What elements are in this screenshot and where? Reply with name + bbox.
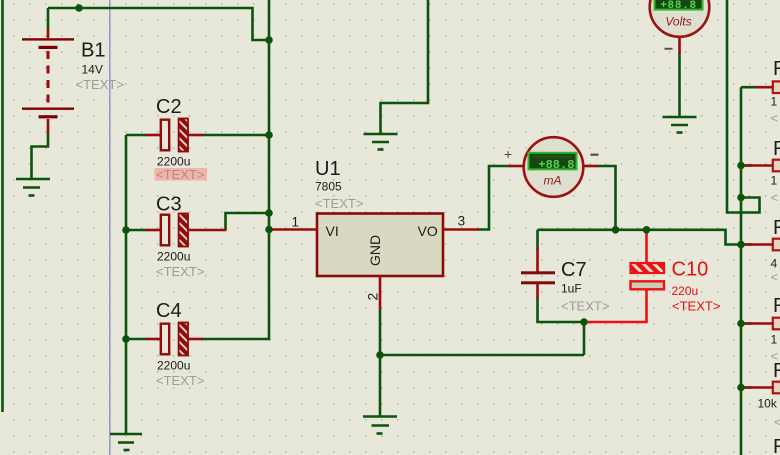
pin C2 left: [146, 134, 161, 137]
wire output rail VO node: [538, 230, 742, 245]
svg-text:GND: GND: [367, 235, 383, 266]
resistor R5: [773, 382, 780, 394]
wire C3 right step to bus: [226, 213, 270, 230]
svg-text:<TEXT>: <TEXT>: [672, 299, 720, 314]
svg-text:B1: B1: [81, 40, 105, 62]
junction right bus R3: [737, 241, 745, 249]
wire top middle ground branch: [381, 0, 429, 134]
wire U1 pin2 to ground rail: [379, 308, 382, 417]
wire R5 stub: [741, 386, 752, 389]
junction battery-bus: [265, 36, 273, 44]
pin C7 bottom: [536, 284, 539, 298]
pin U1-3: [443, 228, 479, 231]
pin R5: [745, 386, 773, 389]
svg-text:4: 4: [771, 257, 778, 271]
wire right feed vertical: [727, 0, 760, 213]
pin U1-2: [379, 276, 382, 309]
pin C3 right: [189, 229, 227, 232]
label voltmeter minus: [665, 48, 673, 50]
svg-text:1: 1: [771, 174, 778, 188]
wire R2 stub: [741, 164, 752, 167]
capacitor C10 (selected): [583, 228, 664, 322]
wire C7 bottom to junction: [538, 297, 585, 322]
pin R1: [756, 86, 773, 89]
svg-text:1: 1: [771, 95, 778, 109]
svg-text:mA: mA: [544, 174, 562, 188]
pin C7 top: [536, 248, 539, 272]
junction output ammeter: [612, 226, 620, 234]
svg-text:2200u: 2200u: [157, 359, 190, 373]
svg-text:R: R: [773, 360, 780, 382]
wire top rail from battery to main bus: [48, 8, 269, 40]
svg-text:10k: 10k: [758, 397, 778, 411]
junction output C10: [643, 226, 651, 234]
svg-text:C10: C10: [672, 259, 709, 281]
wire left edge vertical: [1, 0, 4, 412]
junction right bus R5: [737, 384, 745, 392]
wire C2 right to bus: [202, 134, 269, 137]
pin ammeter minus: [583, 165, 599, 168]
pin R2: [745, 164, 773, 167]
svg-text:C4: C4: [156, 300, 182, 322]
capacitor C2: [161, 119, 188, 152]
pin C2 right: [189, 134, 204, 137]
wire R4 stub: [741, 322, 752, 325]
pin R3: [745, 243, 773, 246]
pin battery bottom: [47, 119, 50, 134]
junction right bus feed: [737, 194, 745, 202]
voltmeter VM1: [650, 0, 710, 37]
pin C4 right: [189, 338, 204, 341]
svg-text:VO: VO: [418, 223, 438, 239]
pin battery top: [47, 29, 50, 38]
ground (U1 pin2): [363, 417, 397, 434]
junction right bus R4: [737, 320, 745, 328]
label C2 TEXT highlighted: [155, 167, 208, 182]
wire bottom ground rail: [380, 354, 584, 357]
svg-text:+88.8: +88.8: [660, 0, 697, 12]
svg-text:<TEXT>: <TEXT>: [561, 299, 609, 314]
junction C7 C10 bottom: [580, 318, 588, 326]
wire C4 left stub: [126, 338, 147, 341]
svg-text:+: +: [504, 146, 512, 162]
wire C7 top drop: [536, 230, 539, 249]
svg-text:1: 1: [771, 333, 778, 347]
junction gnd rail pin2: [376, 351, 384, 359]
ammeter AM1: [524, 137, 584, 197]
resistor R1: [773, 81, 780, 93]
svg-text:<: <: [771, 190, 779, 205]
pin C4 left: [146, 338, 161, 341]
capacitor C4: [161, 323, 188, 356]
svg-text:<TEXT>: <TEXT>: [76, 77, 124, 92]
svg-text:U1: U1: [315, 158, 341, 180]
svg-text:R: R: [773, 217, 780, 239]
svg-text:<TEXT>: <TEXT>: [315, 196, 363, 211]
pin R4: [745, 322, 773, 325]
svg-text:<: <: [771, 111, 779, 126]
svg-text:7805: 7805: [315, 180, 342, 194]
junction right bus R2: [737, 162, 745, 170]
ground (battery): [16, 179, 50, 196]
svg-text:2: 2: [365, 293, 381, 301]
svg-text:<TEXT>: <TEXT>: [156, 167, 204, 182]
resistor R2: [773, 160, 780, 172]
wire R1 stub: [741, 86, 757, 89]
wire right resistor bus: [740, 87, 743, 455]
svg-text:14V: 14V: [82, 63, 103, 77]
junction top rail: [75, 4, 83, 12]
wire left capacitor bus: [125, 135, 128, 434]
svg-text:<: <: [774, 415, 780, 430]
svg-text:1uF: 1uF: [561, 282, 582, 296]
svg-text:220u: 220u: [672, 284, 699, 298]
pin voltmeter minus: [678, 37, 681, 54]
svg-text:<TEXT>: <TEXT>: [156, 264, 204, 279]
junction bus pin1: [265, 226, 273, 234]
svg-text:<: <: [771, 270, 779, 285]
wire battery bottom to ground: [32, 133, 49, 179]
wire junction to bottom rail: [583, 322, 586, 355]
capacitor C7: [521, 271, 555, 284]
ground (left bus): [110, 434, 142, 450]
junction left bus C3: [122, 226, 130, 234]
svg-text:2200u: 2200u: [157, 250, 190, 264]
regulator U1 body: [317, 214, 443, 277]
wire voltmeter to ground: [678, 53, 681, 117]
svg-text:VI: VI: [326, 223, 339, 239]
svg-text:Volts: Volts: [665, 15, 691, 29]
pin ammeter plus: [509, 165, 525, 168]
pin C3 left: [146, 229, 161, 232]
svg-text:+88.8: +88.8: [538, 158, 574, 172]
wire C2 left stub: [126, 134, 147, 137]
svg-text:C2: C2: [156, 96, 182, 118]
svg-text:R: R: [773, 436, 780, 455]
junction left bus C4: [122, 335, 130, 343]
pin U1-1: [269, 228, 317, 231]
junction bus C3: [265, 209, 273, 217]
resistor R3: [773, 239, 780, 251]
svg-text:1: 1: [292, 215, 300, 230]
label ammeter minus: [591, 154, 599, 156]
svg-text:R: R: [773, 295, 780, 317]
ground (top middle): [364, 134, 398, 150]
sheet border line: [109, 0, 111, 455]
svg-text:R: R: [773, 138, 780, 160]
battery B1: [22, 38, 74, 118]
wire main input bus vertical: [201, 0, 269, 339]
wire ammeter left branch: [478, 166, 511, 230]
wire ammeter right branch: [597, 166, 616, 230]
svg-text:3: 3: [458, 214, 466, 229]
capacitor C3: [161, 214, 188, 247]
wire C3 left stub: [126, 229, 147, 232]
svg-text:R: R: [773, 58, 780, 80]
resistor R4: [773, 318, 780, 330]
svg-text:C3: C3: [156, 194, 182, 216]
svg-text:<TEXT>: <TEXT>: [156, 373, 204, 388]
ground (voltmeter): [663, 117, 697, 133]
wire battery top stub: [47, 8, 50, 30]
svg-text:C7: C7: [561, 259, 587, 281]
junction bus C2: [265, 131, 273, 139]
wire R3 stub: [741, 243, 752, 246]
